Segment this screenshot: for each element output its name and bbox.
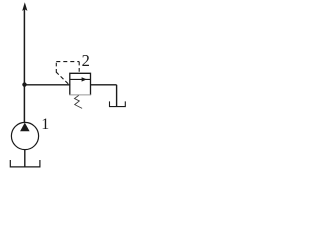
wire main vertical supply line — [23, 9, 25, 123]
svg-text:1: 1 — [41, 116, 49, 133]
pump flow triangle (points up) — [20, 123, 30, 132]
node junction dot — [22, 82, 26, 86]
spring of relief valve — [75, 95, 83, 108]
tank (reservoir) under pump — [10, 160, 40, 167]
wire dashed pilot line left vertical — [55, 62, 57, 73]
wire pump suction line down to tank — [24, 150, 26, 167]
wire dashed pilot line diagonal from inlet — [56, 72, 68, 84]
arrow flow-direction arrowhead at top of supply line — [22, 2, 27, 11]
svg-text:2: 2 — [82, 51, 90, 70]
tank (reservoir) at valve outlet — [110, 101, 126, 106]
arrow flow path inside valve box — [70, 78, 90, 80]
pump P1 circle — [11, 122, 38, 149]
wire branch from junction to valve inlet — [25, 84, 71, 86]
wire dashed pilot line top horizontal — [56, 61, 79, 63]
wire dashed pilot line right vertical into valve top — [78, 62, 80, 74]
wire valve outlet line — [91, 84, 117, 86]
valve box (relief valve 2 body) — [70, 73, 91, 95]
wire outlet drop to tank — [116, 85, 118, 106]
